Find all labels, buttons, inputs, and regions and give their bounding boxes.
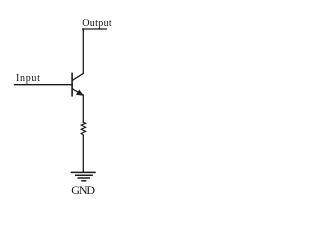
- transistor Q1 collector diagonal: [73, 73, 84, 80]
- svg-text:Input: Input: [16, 73, 41, 84]
- transistor Q1 base bar: [71, 73, 73, 95]
- ground bar 2: [76, 174, 92, 176]
- wire input: [15, 84, 73, 86]
- svg-text:Output: Output: [82, 18, 112, 29]
- transistor Q1 emitter arrowhead: [76, 90, 84, 96]
- wire output horizontal: [83, 28, 107, 30]
- resistor R1 zigzag: [81, 122, 85, 135]
- ground bar 3: [78, 177, 89, 179]
- ground bar 4: [82, 180, 86, 182]
- ground bar 1: [71, 171, 95, 173]
- wire collector vertical (trunk top): [82, 29, 84, 73]
- transistor Q1 emitter diagonal: [73, 89, 83, 95]
- svg-text:GND: GND: [71, 183, 95, 197]
- wire resistor to ground: [82, 135, 84, 172]
- wire emitter to resistor: [82, 95, 84, 122]
